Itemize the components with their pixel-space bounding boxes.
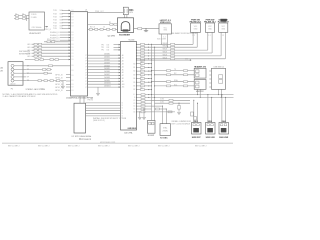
wire: [137, 105, 152, 107]
resistor R35: [137, 81, 152, 83]
svg-text:SCL: SCL: [174, 84, 177, 86]
connector J3: [194, 80, 206, 90]
wire: [155, 108, 167, 110]
resistor R37: [137, 89, 152, 91]
resistor R36: [137, 85, 152, 87]
svg-text:B0: B0: [133, 63, 135, 65]
wire: [66, 74, 71, 76]
svg-text:SIG: SIG: [60, 14, 64, 16]
pin circle: [11, 75, 14, 78]
svg-text:GPIO_B: GPIO_B: [55, 74, 63, 76]
wire: [88, 75, 121, 77]
capacitor C2: [14, 18, 29, 20]
wire: [88, 83, 121, 85]
svg-text:MICROSEMI CORP.: MICROSEMI CORP.: [100, 142, 116, 144]
svg-text:PWM_OUT: PWM_OUT: [95, 11, 104, 13]
resistor R61: [167, 74, 171, 76]
svg-text:DATA8: DATA8: [104, 76, 110, 79]
wire: [26, 72, 52, 74]
resistor R45: [141, 108, 145, 110]
wire: [62, 22, 71, 24]
flash U2: [74, 103, 86, 133]
wire VBUS row: [152, 59, 192, 61]
ferrite FB2: [141, 96, 145, 98]
svg-text:V+: V+: [133, 94, 135, 96]
svg-text:GND BUS: GND BUS: [128, 128, 137, 130]
resistor R24: [141, 55, 145, 57]
pin wire: [207, 32, 209, 50]
switch SW5: [191, 23, 201, 32]
pin wire: [211, 97, 213, 122]
resistor R22: [141, 49, 145, 51]
svg-text:SW3 USR: SW3 USR: [206, 137, 216, 139]
pin wire: [14, 76, 23, 78]
capacitor C25: [171, 58, 175, 60]
resistor R63: [167, 85, 171, 87]
bus wire VCC: [137, 94, 234, 96]
svg-text:DATA5: DATA5: [104, 67, 110, 70]
svg-text:10K: 10K: [140, 84, 143, 86]
pin wire: [199, 89, 201, 97]
pin wire: [167, 34, 169, 47]
svg-text:HDR 2X2: HDR 2X2: [196, 91, 204, 93]
wire: [26, 16, 28, 21]
wire: [88, 72, 121, 74]
svg-text:IO2: IO2: [107, 50, 110, 52]
resistor R53: [169, 99, 173, 101]
svg-text:DATA4: DATA4: [104, 64, 110, 67]
svg-text:5V0: 5V0: [185, 58, 188, 60]
wire: [62, 19, 71, 21]
svg-text:GPIO_B: GPIO_B: [55, 90, 63, 92]
svg-text:SEE SHEET 3 FOR DECOUPLING: SEE SHEET 3 FOR DECOUPLING: [171, 33, 198, 35]
wire: [137, 108, 152, 110]
resistor R31: [137, 66, 152, 68]
svg-text:XTAL: XTAL: [163, 126, 167, 129]
svg-text:TCK: TCK: [53, 20, 58, 22]
svg-text:FLASH_IO: FLASH_IO: [50, 31, 60, 34]
wire: [66, 83, 71, 85]
svg-text:B2: B2: [133, 71, 135, 73]
svg-text:C6: C6: [133, 112, 135, 114]
svg-text:(SEE NOTE 3): (SEE NOTE 3): [93, 120, 105, 122]
wire: [45, 26, 49, 28]
resistor R44: [141, 105, 145, 107]
wire: [114, 44, 121, 46]
oscillator X2: [160, 124, 171, 136]
wire V3: [151, 44, 153, 120]
pin wire: [86, 112, 121, 114]
svg-text:FLASH_IO: FLASH_IO: [50, 36, 60, 39]
svg-text:PB-SW J6-1: PB-SW J6-1: [204, 21, 217, 23]
svg-text:TP1: TP1: [101, 50, 104, 52]
pin wire: [220, 89, 222, 97]
connector J7: [219, 23, 228, 32]
wire: [60, 34, 71, 36]
svg-text:10K: 10K: [140, 80, 143, 82]
wire: [88, 80, 121, 82]
pin wire: [86, 105, 121, 107]
resistor R32: [137, 70, 152, 72]
svg-text:SIG: SIG: [60, 10, 64, 12]
wire: [155, 74, 195, 76]
svg-text:C4: C4: [133, 106, 135, 108]
wire: [66, 80, 71, 82]
capacitor C23: [171, 52, 175, 54]
wire: [62, 25, 71, 27]
resistor R33: [137, 74, 152, 76]
wire: [88, 60, 121, 62]
resistor R13: [32, 49, 71, 51]
pin wire: [196, 32, 198, 47]
capacitor C8 row: [26, 80, 66, 82]
resistor row: [44, 41, 71, 43]
svg-text:2 GND: 2 GND: [31, 17, 37, 19]
svg-text:C4: C4: [103, 27, 105, 29]
pin wire: [225, 97, 227, 122]
svg-text:TCK: TCK: [53, 28, 58, 30]
pin wire: [211, 32, 213, 53]
svg-text:REV 1.0 SHT 2: REV 1.0 SHT 2: [195, 145, 207, 147]
bus wire GND: [137, 96, 234, 98]
wire: [88, 54, 121, 56]
resistor R34: [137, 78, 152, 80]
svg-text:REV 1.0 SHT 2: REV 1.0 SHT 2: [68, 145, 80, 147]
filter row: [25, 59, 71, 61]
pin wire: [14, 80, 23, 82]
resistor R2 chain: [88, 28, 118, 30]
svg-text:SIG: SIG: [60, 23, 64, 25]
svg-text:INTERFACE: INTERFACE: [19, 53, 31, 56]
svg-text:SIG: SIG: [60, 16, 64, 18]
resistor R50: [156, 108, 160, 110]
svg-text:10K: 10K: [140, 87, 143, 89]
pin wire: [224, 32, 226, 59]
crystal Y1: [123, 7, 128, 14]
svg-text:REV 1.0 SHT 2: REV 1.0 SHT 2: [8, 145, 20, 147]
switch SW6: [205, 23, 214, 32]
svg-text:HEADER 2X2: HEADER 2X2: [194, 65, 206, 68]
svg-text:DATA6: DATA6: [104, 70, 110, 73]
svg-text:DATA3: DATA3: [104, 61, 110, 64]
pin circle: [11, 72, 14, 75]
svg-text:CLK1: CLK1: [160, 102, 164, 104]
svg-text:SIG: SIG: [60, 28, 64, 30]
wire: [62, 27, 71, 29]
wire: [155, 85, 195, 87]
pin wire: [193, 100, 195, 122]
svg-text:R2 C3: R2 C3: [90, 27, 95, 29]
svg-text:OSC_O: OSC_O: [45, 29, 52, 31]
ground: [139, 112, 141, 117]
pin wire: [209, 78, 211, 80]
wire: [62, 16, 71, 18]
svg-text:DATA9: DATA9: [104, 79, 110, 82]
svg-text:10K: 10K: [140, 65, 143, 67]
svg-text:TIP: TIP: [27, 77, 29, 79]
bus wire: [137, 52, 213, 54]
resistor R52: [194, 117, 197, 121]
resistor R42: [141, 99, 145, 101]
pin wire: [165, 109, 167, 124]
svg-text:EXT CLOCK SOURCE: EXT CLOCK SOURCE: [172, 123, 191, 125]
wire: [152, 81, 195, 83]
pin wire: [209, 82, 211, 84]
svg-text:1 2: 1 2: [222, 35, 224, 37]
pin wire: [209, 86, 211, 88]
capacitor C30: [178, 103, 180, 111]
svg-text:TCK: TCK: [53, 16, 58, 18]
pin wire: [86, 115, 121, 117]
svg-text:DATA2: DATA2: [104, 59, 110, 62]
wire: [114, 46, 121, 48]
pin wire: [14, 69, 23, 71]
pin wire: [14, 72, 23, 74]
svg-text:U1: U1: [85, 9, 87, 11]
pin wire: [192, 32, 194, 44]
svg-text:REV 1.0 SHT 2: REV 1.0 SHT 2: [38, 145, 50, 147]
level shifter U3: [121, 42, 137, 131]
resistor R14: [32, 52, 71, 54]
svg-text:Q1 DRV: Q1 DRV: [108, 35, 116, 37]
wire: [137, 102, 152, 104]
svg-text:B3: B3: [133, 74, 135, 76]
svg-text:GPIO_B: GPIO_B: [55, 77, 63, 79]
resistor R11: [32, 43, 71, 45]
wire: [26, 69, 52, 71]
resistor R51: [168, 111, 172, 113]
svg-text:REV 1.0 SHT 2: REV 1.0 SHT 2: [98, 145, 110, 147]
ground: [143, 109, 145, 117]
svg-text:DATA0: DATA0: [104, 53, 110, 56]
ground: [62, 81, 64, 86]
svg-text:R1: R1: [109, 22, 111, 24]
svg-text:10K: 10K: [140, 69, 143, 71]
pin wire: [221, 95, 223, 123]
svg-text:C2: C2: [133, 100, 135, 102]
svg-text:1 2: 1 2: [208, 35, 210, 37]
connector J2: [194, 68, 206, 78]
svg-text:TCK: TCK: [53, 14, 58, 16]
wire: [152, 70, 195, 72]
buzzer LS1: [118, 18, 134, 33]
wire: [152, 99, 191, 101]
pin wire: [79, 96, 81, 103]
wire: [60, 31, 71, 33]
capacitor C1: [14, 15, 29, 17]
wire: [152, 105, 162, 107]
pin wire: [124, 15, 126, 18]
svg-text:DATA11: DATA11: [104, 85, 111, 88]
ferrite FB1: [141, 94, 145, 96]
pin wire: [86, 102, 121, 104]
resistor R46: [141, 111, 145, 113]
svg-text:1 2: 1 2: [192, 35, 194, 37]
bus wire: [137, 43, 194, 45]
svg-text:REV 1.0 SHT 2: REV 1.0 SHT 2: [128, 145, 140, 147]
wire: [88, 77, 121, 79]
pin wire: [220, 32, 222, 56]
svg-text:USB MINI J4: USB MINI J4: [214, 66, 224, 68]
svg-text:P1: P1: [11, 88, 13, 90]
svg-text:C3: C3: [133, 103, 135, 105]
svg-text:SIG: SIG: [60, 20, 64, 22]
wire: [60, 39, 71, 41]
regulator VR1: [159, 24, 172, 34]
svg-text:10K: 10K: [140, 76, 143, 78]
svg-text:B5: B5: [133, 82, 135, 84]
svg-text:Y2 OSC: Y2 OSC: [160, 137, 168, 139]
pin wire: [161, 34, 163, 44]
wire: [66, 86, 71, 88]
resistor R25: [141, 58, 145, 60]
oscillator box U5: [29, 12, 45, 30]
svg-text:VDD CORE: VDD CORE: [157, 38, 167, 40]
pin circle: [11, 68, 14, 71]
resistor R1 chain: [88, 23, 118, 25]
svg-text:SW2 RST: SW2 RST: [192, 137, 202, 139]
bus wire: [137, 49, 208, 51]
svg-text:J8 JMP: J8 JMP: [148, 135, 155, 137]
wire: [88, 86, 121, 88]
svg-text:25MHz: 25MHz: [162, 130, 168, 132]
svg-text:10K: 10K: [140, 62, 143, 64]
svg-text:U5 ECS-327: U5 ECS-327: [29, 33, 42, 35]
diode D1: [191, 112, 194, 116]
svg-text:10K: 10K: [140, 73, 143, 75]
pin wire: [161, 106, 163, 124]
wire: [26, 65, 70, 67]
pin wire: [197, 89, 199, 94]
wire: [88, 69, 121, 71]
svg-text:B6: B6: [133, 86, 135, 88]
title block rule: [2, 142, 233, 144]
capacitor C21: [171, 46, 175, 48]
pin wire: [209, 70, 211, 72]
wire: [137, 99, 152, 101]
resistor R12: [32, 46, 71, 48]
svg-text:SOUNDER: SOUNDER: [119, 34, 130, 36]
svg-text:TCK: TCK: [53, 10, 58, 12]
wire: [66, 77, 71, 79]
wire: [88, 12, 124, 14]
capacitor C22: [171, 49, 175, 51]
pin wire: [197, 103, 199, 122]
wire: [88, 63, 121, 65]
svg-text:C12: C12: [40, 89, 43, 91]
pin wire: [207, 95, 209, 123]
wire: [62, 9, 71, 11]
svg-text:DATA7: DATA7: [104, 73, 110, 76]
svg-text:VCC33: VCC33: [129, 39, 135, 41]
svg-text:C5: C5: [133, 109, 135, 111]
wire: [137, 111, 152, 113]
pin circle: [11, 64, 14, 67]
svg-text:VREG LDO: VREG LDO: [160, 22, 171, 24]
resistor R62: [167, 81, 171, 83]
capacitor C24: [171, 55, 175, 57]
capacitor C5: [145, 29, 147, 32]
resistor R15: [32, 55, 71, 57]
transistor Q1: [134, 28, 160, 30]
resistor R60: [167, 70, 171, 72]
resistor R54: [169, 102, 173, 104]
pin wire: [218, 89, 220, 94]
wire: [155, 102, 191, 104]
svg-text:OSC 40kHz: OSC 40kHz: [32, 27, 42, 29]
resistor R23: [141, 52, 145, 54]
wire: [88, 66, 121, 68]
svg-text:FLASH_IO: FLASH_IO: [50, 34, 60, 37]
jumper J8: [148, 120, 156, 133]
svg-text:REV 1.0 SHT 2: REV 1.0 SHT 2: [158, 145, 170, 147]
svg-text:2. ALL CAPACITORS ARE X7R 0402: 2. ALL CAPACITORS ARE X7R 0402: [3, 95, 37, 98]
wire: [62, 13, 71, 15]
wire: [114, 49, 121, 51]
bus wire: [137, 55, 222, 57]
svg-text:PROG: PROG: [88, 100, 94, 102]
svg-text:SW4 USR: SW4 USR: [219, 136, 229, 139]
svg-text:R10: R10: [47, 39, 50, 41]
ground: [97, 87, 99, 93]
resistor R21: [141, 46, 145, 48]
connector P1: [8, 62, 23, 85]
svg-text:CLK0: CLK0: [160, 99, 164, 101]
capacitor C20: [171, 43, 175, 45]
pin wire: [126, 15, 128, 18]
pin wire: [86, 107, 121, 109]
pin wire: [14, 65, 23, 67]
bus wire: [137, 46, 198, 48]
pin circle: [11, 79, 14, 82]
svg-text:1 VDD: 1 VDD: [31, 14, 37, 16]
resistor R43: [141, 102, 145, 104]
wire: [66, 89, 71, 91]
svg-text:B4: B4: [133, 78, 135, 80]
resistor R30: [137, 63, 152, 65]
wire: [60, 37, 71, 39]
wire V4: [154, 47, 156, 120]
resistor R20: [141, 43, 145, 45]
svg-text:B1: B1: [133, 67, 135, 69]
svg-text:U4 CTRL: U4 CTRL: [124, 133, 133, 135]
svg-text:DATA1: DATA1: [104, 56, 110, 59]
svg-text:C2: C2: [22, 13, 24, 15]
svg-text:TCK: TCK: [53, 23, 58, 25]
bus wire: [137, 58, 226, 60]
svg-text:DATA10: DATA10: [104, 82, 111, 85]
svg-text:B7: B7: [133, 89, 135, 91]
pin wire: [209, 74, 211, 76]
wire: [88, 57, 121, 59]
pin wire: [86, 110, 121, 112]
pin wire: [83, 96, 85, 103]
svg-text:Microsemi: Microsemi: [79, 137, 92, 141]
svg-text:C1: C1: [15, 13, 17, 15]
svg-text:PB-SW J5-1: PB-SW J5-1: [190, 21, 203, 23]
